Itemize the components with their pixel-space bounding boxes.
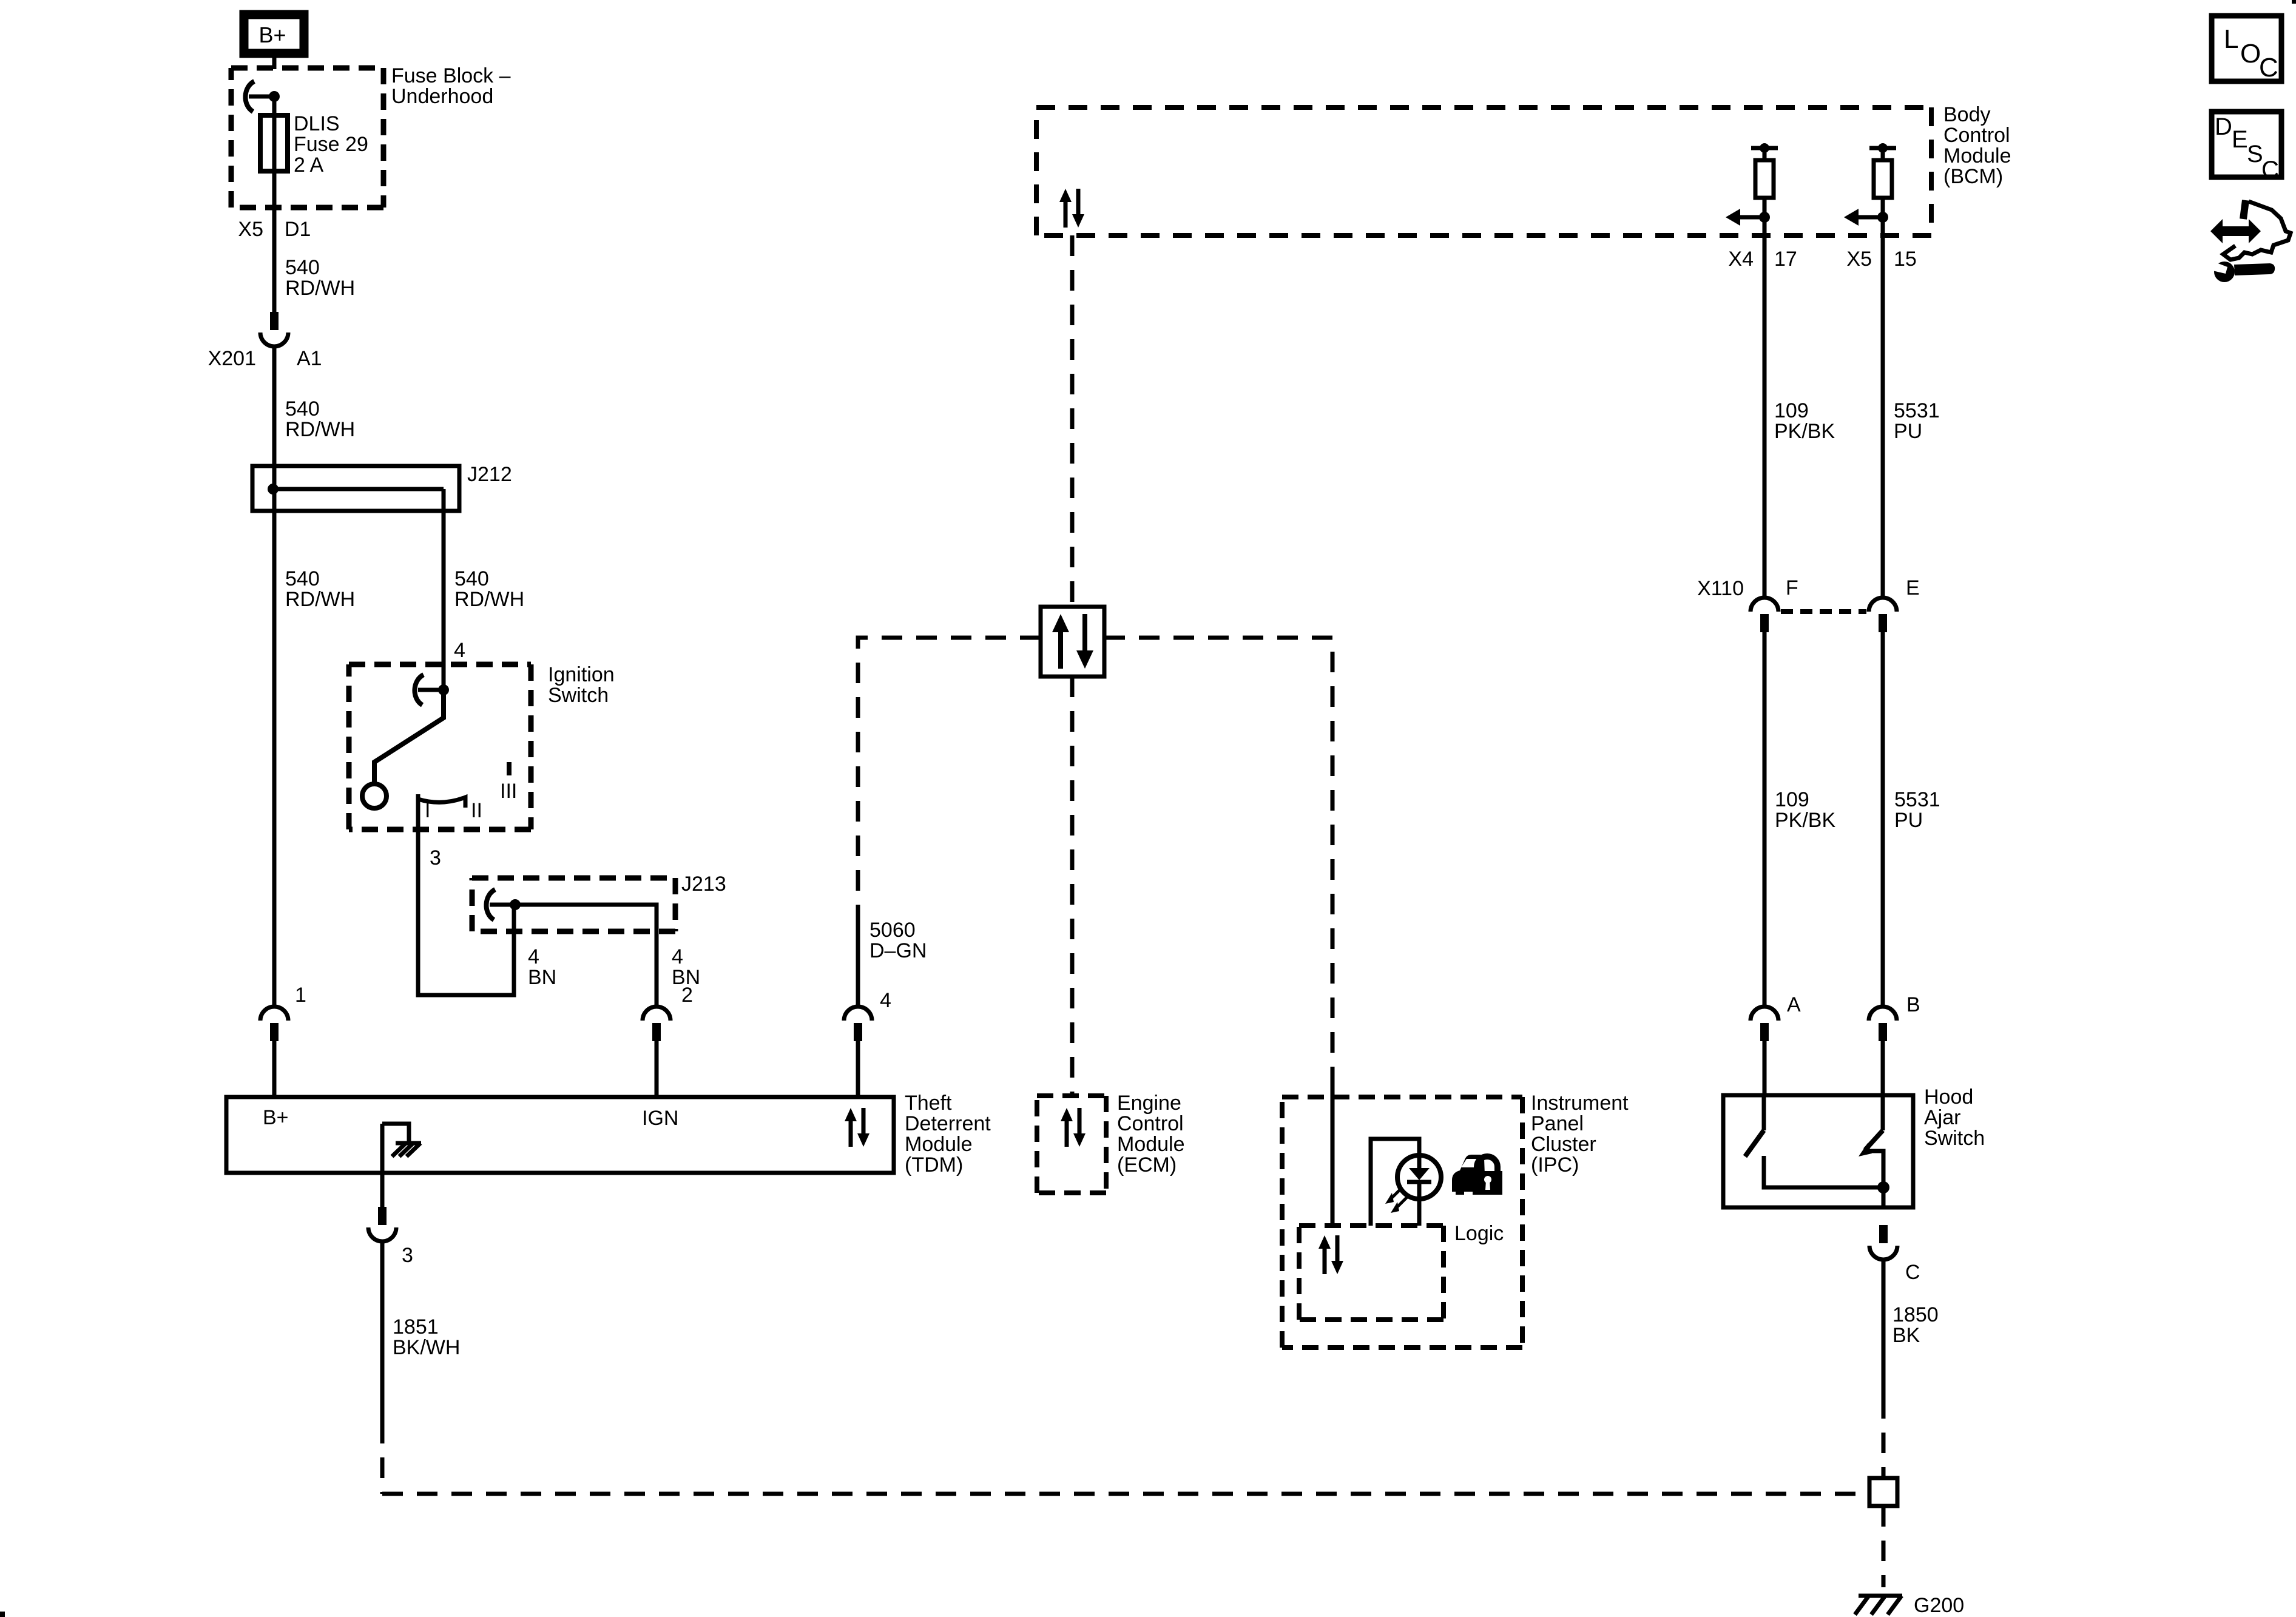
- svg-text:540: 540: [454, 567, 489, 590]
- svg-text:3: 3: [402, 1244, 413, 1267]
- svg-text:4: 4: [454, 639, 465, 662]
- svg-text:3: 3: [430, 846, 441, 869]
- label pin B: [1906, 993, 1920, 1016]
- svg-text:PK/BK: PK/BK: [1774, 420, 1835, 443]
- label Instrument Panel Cluster IPC: [1531, 1092, 1629, 1176]
- ignition position tick III: [507, 762, 512, 775]
- hood switch blade A: [1745, 1095, 1764, 1156]
- J213 clip: [486, 890, 515, 920]
- svg-text:O: O: [2240, 39, 2261, 69]
- wire label 4 BN right: [672, 945, 700, 989]
- svg-text:Underhood: Underhood: [391, 85, 493, 108]
- wire label 109 PK/BK lower: [1775, 788, 1835, 832]
- power feed B+ box: [244, 15, 304, 53]
- wire label 1851 BK/WH: [393, 1315, 460, 1359]
- TDM serial data arrows: [845, 1108, 869, 1147]
- node hood switch common dot: [1877, 1181, 1889, 1193]
- node J212 dot: [268, 484, 279, 495]
- label X5 15: [1846, 248, 1916, 271]
- svg-text:540: 540: [285, 256, 320, 279]
- wire label 4 BN left: [528, 945, 556, 989]
- ignition switch dashed box: [349, 664, 531, 829]
- svg-text:Switch: Switch: [548, 684, 609, 707]
- label Theft Deterrent Module TDM: [905, 1092, 991, 1176]
- wire X110 E to hood switch B: [1881, 632, 1885, 1007]
- label Fuse Block - Underhood: [391, 64, 511, 108]
- svg-text:C: C: [1905, 1261, 1920, 1284]
- label Body Control Module BCM: [1943, 103, 2011, 188]
- wire through fuse: [272, 96, 277, 314]
- page corner speck bottom-left: [0, 1612, 5, 1617]
- splice pack J212: [252, 466, 459, 513]
- svg-text:Switch: Switch: [1924, 1127, 1985, 1150]
- security indicator car and lock icon: [1452, 1155, 1502, 1195]
- svg-text:D: D: [2215, 113, 2232, 140]
- label TDM pin 1: [295, 984, 306, 1007]
- svg-text:Module: Module: [905, 1133, 973, 1156]
- svg-text:Ajar: Ajar: [1924, 1106, 1960, 1129]
- svg-text:1: 1: [295, 984, 306, 1007]
- svg-text:BN: BN: [528, 966, 556, 989]
- label position I: [425, 799, 430, 822]
- svg-text:2 A: 2 A: [294, 154, 323, 177]
- svg-text:J213: J213: [681, 873, 726, 896]
- DESC reference box: [2212, 112, 2281, 183]
- node fuse feed dot: [269, 91, 280, 102]
- svg-text:B+: B+: [263, 1106, 289, 1129]
- svg-text:15: 15: [1894, 248, 1917, 271]
- wire 1851 solid segment: [380, 1241, 385, 1423]
- BCM terminating resistor X4-17: [1726, 143, 1778, 226]
- svg-text:X110: X110: [1697, 577, 1744, 600]
- serial dashed right branch: [1104, 638, 1332, 1087]
- svg-text:Theft: Theft: [905, 1092, 952, 1115]
- connector X201 pin A1: [260, 312, 288, 346]
- svg-text:Control: Control: [1943, 124, 2010, 147]
- svg-text:109: 109: [1775, 788, 1809, 811]
- svg-text:(TDM): (TDM): [905, 1153, 963, 1176]
- splice J213 dashed box: [472, 878, 675, 931]
- svg-text:B+: B+: [258, 22, 286, 47]
- wire ignition terminal 3: [418, 794, 514, 995]
- svg-text:Fuse 29: Fuse 29: [294, 133, 368, 156]
- wire J213 to TDM pin 2: [515, 905, 657, 1007]
- connector hood pin A: [1751, 1007, 1778, 1095]
- ignition switch blade: [374, 690, 444, 784]
- svg-text:PU: PU: [1894, 809, 1923, 832]
- ECM serial data arrows: [1061, 1108, 1086, 1147]
- connector X110 pin E: [1869, 598, 1897, 632]
- svg-text:RD/WH: RD/WH: [285, 277, 355, 300]
- svg-text:X4: X4: [1728, 248, 1754, 271]
- label X110 F E: [1697, 576, 1920, 600]
- ignition position arc: [418, 797, 465, 808]
- wire label 540 RD/WH right branch: [454, 567, 524, 611]
- label IGN pin: [642, 1107, 678, 1130]
- TDM internal ground: [382, 1124, 421, 1156]
- node J213 dot: [510, 899, 521, 910]
- svg-text:5531: 5531: [1894, 788, 1940, 811]
- label TDM pin 2: [681, 984, 693, 1007]
- svg-text:I: I: [425, 799, 430, 822]
- svg-text:Module: Module: [1117, 1133, 1185, 1156]
- svg-text:4: 4: [528, 945, 539, 968]
- connector TDM pin 1: [260, 1007, 288, 1097]
- wire X110 F to hood switch A: [1763, 632, 1767, 1007]
- svg-text:17: 17: [1774, 248, 1797, 271]
- label terminal 3: [430, 846, 441, 869]
- svg-text:X5: X5: [1846, 248, 1872, 271]
- connector TDM pin 3: [368, 1207, 396, 1241]
- svg-text:III: III: [500, 780, 517, 803]
- svg-text:4: 4: [880, 989, 891, 1012]
- label pin A: [1787, 993, 1801, 1016]
- wire label 5531 PU upper: [1894, 399, 1940, 443]
- fuse block bus clip: [245, 81, 274, 112]
- serial dashed left branch: [858, 638, 1041, 906]
- svg-text:(IPC): (IPC): [1531, 1153, 1579, 1176]
- wire X201 to TDM pin 1: [272, 346, 277, 1007]
- svg-text:Body: Body: [1943, 103, 1991, 126]
- LED diode: [1407, 1156, 1431, 1226]
- instrument panel cluster dashed box: [1282, 1097, 1522, 1348]
- wire TDM pin 3: [380, 1124, 385, 1207]
- svg-text:C: C: [2261, 157, 2279, 183]
- engine control module dashed box: [1037, 1096, 1106, 1193]
- svg-text:2: 2: [681, 984, 693, 1007]
- svg-text:F: F: [1786, 576, 1798, 599]
- LED flash arrows: [1385, 1187, 1408, 1213]
- svg-text:PK/BK: PK/BK: [1775, 809, 1835, 832]
- label J213: [681, 873, 726, 896]
- wire label 1850 BK: [1893, 1303, 1939, 1347]
- label Engine Control Module ECM: [1117, 1092, 1185, 1176]
- wire 1850 solid: [1882, 1260, 1886, 1398]
- serial dashed to ECM: [1070, 677, 1075, 1096]
- svg-text:B: B: [1906, 993, 1920, 1016]
- svg-text:Cluster: Cluster: [1531, 1133, 1596, 1156]
- svg-text:Engine: Engine: [1117, 1092, 1181, 1115]
- wire label 540 RD/WH lower: [285, 397, 355, 441]
- svg-text:C: C: [2259, 53, 2278, 83]
- svg-text:X5: X5: [238, 218, 263, 241]
- label G200: [1914, 1594, 1964, 1617]
- BCM terminating resistor X5-15: [1844, 143, 1896, 226]
- LOC reference box: [2212, 16, 2281, 83]
- wire label 5531 PU lower: [1894, 788, 1940, 832]
- wire J212 to ignition switch: [442, 511, 446, 690]
- svg-text:540: 540: [285, 397, 320, 420]
- label J212: [467, 463, 512, 486]
- wire BCM X5-15 down: [1881, 217, 1885, 596]
- connector TDM pin 2: [643, 1007, 670, 1097]
- svg-text:G200: G200: [1914, 1594, 1964, 1617]
- svg-text:D1: D1: [285, 218, 311, 241]
- wire label 5060 D-GN: [869, 919, 927, 962]
- hood switch blade B: [1859, 1095, 1883, 1156]
- svg-text:RD/WH: RD/WH: [454, 588, 524, 611]
- svg-text:X201: X201: [208, 347, 256, 370]
- svg-text:4: 4: [672, 945, 683, 968]
- svg-text:Ignition: Ignition: [548, 663, 615, 686]
- svg-text:5531: 5531: [1894, 399, 1940, 422]
- svg-text:BK/WH: BK/WH: [393, 1336, 460, 1359]
- svg-text:Module: Module: [1943, 144, 2011, 167]
- fuse block underhood dashed box: [231, 68, 383, 208]
- security indicator LED loop: [1371, 1139, 1419, 1226]
- wire label 109 PK/BK upper: [1774, 399, 1835, 443]
- wire 5060 solid segment: [856, 906, 860, 1007]
- svg-text:D–GN: D–GN: [869, 939, 927, 962]
- label Logic: [1454, 1222, 1504, 1245]
- svg-text:DLIS: DLIS: [294, 112, 340, 135]
- svg-text:Deterrent: Deterrent: [905, 1112, 991, 1135]
- svg-text:1850: 1850: [1893, 1303, 1939, 1326]
- svg-text:J212: J212: [467, 463, 512, 486]
- label DLIS Fuse 29 2A: [294, 112, 368, 177]
- wire to G200: [1882, 1506, 1886, 1587]
- svg-text:E: E: [1906, 576, 1920, 599]
- svg-text:540: 540: [285, 567, 320, 590]
- svg-text:BK: BK: [1893, 1324, 1920, 1347]
- svg-text:5060: 5060: [869, 919, 916, 942]
- wire BCM serial dashed: [1070, 235, 1075, 607]
- LED circle: [1397, 1155, 1441, 1199]
- wire 1850 dashed: [1882, 1398, 1886, 1478]
- serial data junction box: [1041, 607, 1104, 677]
- label B+ pin: [263, 1106, 289, 1129]
- svg-text:Fuse Block –: Fuse Block –: [391, 64, 511, 87]
- label pin 4 ignition: [454, 639, 465, 662]
- ignition switch clip: [414, 675, 444, 705]
- svg-text:RD/WH: RD/WH: [285, 588, 355, 611]
- wire 1851 dashed to ground: [382, 1423, 1869, 1494]
- IPC serial line: [1331, 1087, 1335, 1226]
- ignition switch rotor circle: [362, 784, 387, 808]
- svg-text:RD/WH: RD/WH: [285, 418, 355, 441]
- svg-text:IGN: IGN: [642, 1107, 678, 1130]
- X110 tie line: [1781, 609, 1866, 614]
- label TDM pin 4: [880, 989, 891, 1012]
- wire BCM X4-17 down: [1763, 217, 1767, 596]
- svg-text:A1: A1: [297, 347, 322, 370]
- svg-text:E: E: [2232, 126, 2248, 153]
- svg-text:Panel: Panel: [1531, 1112, 1584, 1135]
- hood switch contact A: [1764, 1156, 1883, 1187]
- hood switch contact B: [1868, 1151, 1883, 1187]
- svg-text:Control: Control: [1117, 1112, 1184, 1135]
- fuse DLIS Fuse 29 2A: [260, 115, 288, 171]
- svg-text:(BCM): (BCM): [1943, 165, 2003, 188]
- svg-text:109: 109: [1774, 399, 1809, 422]
- node ignition feed dot: [438, 684, 449, 695]
- wire label 540 RD/WH left branch: [285, 567, 355, 611]
- label X201 A1: [208, 347, 322, 370]
- label Ignition Switch: [548, 663, 615, 707]
- svg-text:L: L: [2224, 24, 2238, 54]
- wire label 540 RD/WH upper: [285, 256, 355, 300]
- service locator icon: [2210, 200, 2291, 282]
- junction box arrows: [1052, 614, 1093, 669]
- label pin C: [1905, 1261, 1920, 1284]
- logic serial data arrows: [1319, 1235, 1343, 1274]
- svg-text:Instrument: Instrument: [1531, 1092, 1629, 1115]
- svg-text:II: II: [471, 799, 482, 822]
- svg-text:(ECM): (ECM): [1117, 1153, 1177, 1176]
- label position II: [471, 799, 482, 822]
- svg-text:S: S: [2247, 141, 2263, 167]
- hood ajar switch box: [1723, 1095, 1913, 1207]
- label Hood Ajar Switch: [1924, 1085, 1985, 1150]
- label pin 3: [402, 1244, 413, 1267]
- body control module dashed box: [1036, 107, 1931, 235]
- svg-text:Logic: Logic: [1454, 1222, 1504, 1245]
- connector hood pin B: [1869, 1007, 1897, 1095]
- svg-text:1851: 1851: [393, 1315, 439, 1338]
- BCM serial data arrows: [1059, 189, 1084, 228]
- label position III: [500, 780, 517, 803]
- ground splice box: [1869, 1478, 1897, 1506]
- connector X110 pin F: [1751, 598, 1778, 632]
- svg-text:Hood: Hood: [1924, 1085, 1973, 1109]
- wire B+ to fuse block: [272, 58, 277, 69]
- wire hood common to pin C: [1882, 1187, 1886, 1207]
- connector TDM pin 4: [844, 1007, 872, 1097]
- page corner speck top-right: [2292, 0, 2296, 4]
- connector hood pin C: [1869, 1225, 1897, 1260]
- logic dashed box: [1299, 1226, 1443, 1320]
- svg-text:PU: PU: [1894, 420, 1922, 443]
- theft deterrent module box: [226, 1097, 894, 1173]
- label X5 D1: [238, 218, 311, 241]
- ground G200 symbol: [1855, 1596, 1902, 1615]
- svg-text:A: A: [1787, 993, 1801, 1016]
- label X4 17: [1728, 248, 1797, 271]
